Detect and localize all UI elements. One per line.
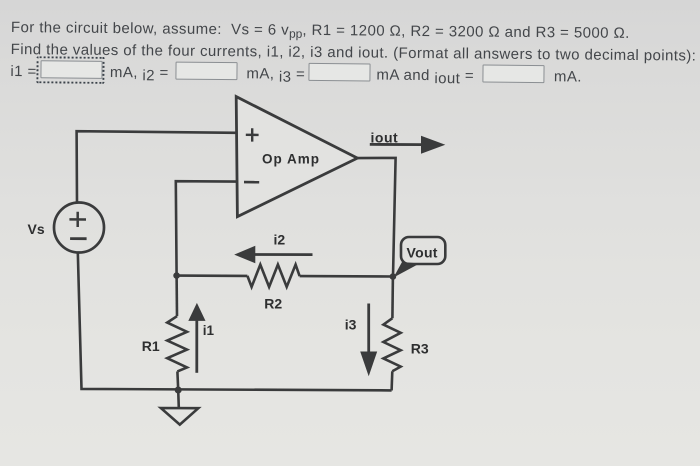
i1 arrow shaft (195, 321, 198, 373)
wire: R1 bottom lead (176, 371, 179, 390)
wire: top wire from Vs to op-amp + input (77, 131, 236, 203)
wire: R3 bottom lead (390, 371, 393, 390)
svg-text:R3: R3 (411, 341, 429, 357)
Vout callout tail (394, 262, 420, 278)
wire: ground stem (177, 390, 180, 408)
node: bottom node (R1/ground/bottom rail junction) (175, 387, 182, 394)
resistor R1 zigzag (167, 316, 187, 371)
svg-text:Op Amp: Op Amp (262, 151, 320, 166)
svg-text:R1: R1 (142, 338, 160, 354)
i3 arrowhead (360, 352, 377, 377)
op-amp U1 triangle (236, 97, 357, 217)
resistor R2 zigzag (247, 265, 299, 287)
i1 arrowhead (188, 303, 205, 321)
Vout callout bubble (401, 237, 445, 264)
node: middle node (R1/R2/feedback junction) (173, 272, 180, 279)
i3 arrow shaft (367, 304, 370, 353)
svg-text:iout: iout (371, 129, 399, 145)
wire: Vs bottom to bottom rail (78, 252, 392, 391)
svg-text:i2: i2 (274, 231, 286, 247)
node: Vout node (R2/R3/output junction) (390, 273, 397, 280)
svg-text:Vs: Vs (28, 221, 45, 237)
wire: op-amp output to Vout node (357, 158, 395, 277)
op-amp - input symbol (244, 181, 259, 184)
svg-text:Vout: Vout (407, 245, 438, 261)
wire: R3 top lead (391, 277, 394, 319)
wire: middle node to R2 left lead (177, 274, 248, 277)
i2 arrow shaft (255, 253, 313, 256)
iout arrow shaft (370, 143, 423, 146)
wire: R2 right lead to output node (300, 275, 393, 278)
voltage source minus symbol (70, 237, 87, 240)
wire: feedback from op-amp - input down to middle node (176, 181, 236, 275)
wire: R1 top lead (175, 276, 178, 317)
svg-text:i3: i3 (345, 316, 357, 332)
voltage source plus symbol (69, 212, 86, 227)
iout arrowhead (421, 136, 445, 154)
op-amp + input symbol (246, 128, 259, 141)
i2 arrowhead (234, 246, 255, 263)
svg-text:i1: i1 (203, 323, 215, 338)
ground symbol triangle (161, 408, 199, 425)
resistor R3 zigzag (383, 318, 400, 371)
voltage source Vs circle (54, 203, 104, 253)
svg-text:R2: R2 (264, 295, 282, 311)
